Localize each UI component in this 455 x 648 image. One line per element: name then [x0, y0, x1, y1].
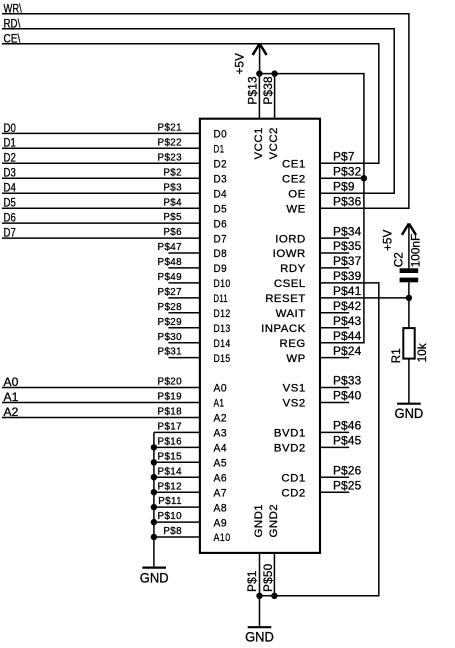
svg-text:10k: 10k: [415, 343, 429, 362]
pin P$35 IOWR: [320, 252, 349, 254]
junction bus P$12: [151, 489, 157, 495]
svg-text:WP: WP: [286, 353, 305, 365]
svg-text:P$48: P$48: [158, 257, 183, 268]
svg-text:D10: D10: [214, 278, 231, 290]
svg-text:D6: D6: [4, 211, 16, 225]
pin P$15 A5: [154, 461, 200, 463]
svg-text:D1: D1: [4, 136, 16, 150]
pin P$6 D7: [2, 237, 200, 239]
svg-text:P$38: P$38: [261, 76, 275, 105]
junction RC node: [406, 295, 412, 301]
svg-text:OE: OE: [288, 188, 305, 200]
wire CE2 branch: [320, 177, 364, 179]
svg-text:P$1: P$1: [245, 570, 259, 592]
svg-text:P$32: P$32: [333, 164, 361, 178]
junction P$50: [271, 593, 277, 599]
svg-text:P$23: P$23: [158, 152, 183, 163]
svg-text:P$36: P$36: [333, 194, 362, 208]
pin P$18 A2: [2, 417, 200, 419]
pin P$3 D4: [2, 192, 200, 194]
power +5V symbol (top): [259, 45, 261, 74]
svg-text:D14: D14: [214, 338, 231, 350]
junction P$13: [256, 70, 262, 76]
pin P$31 D15: [168, 357, 200, 359]
pin P$21 D0: [2, 132, 200, 134]
svg-text:+5V: +5V: [233, 53, 247, 74]
svg-text:P$27: P$27: [158, 287, 182, 298]
pin P$13 VCC1: [258, 74, 260, 119]
svg-text:P$8: P$8: [163, 526, 182, 537]
svg-text:A8: A8: [214, 502, 228, 514]
pin P$27 D11: [168, 297, 200, 299]
pin P$44 REG: [320, 342, 349, 344]
svg-text:GND: GND: [245, 629, 274, 645]
svg-text:CD1: CD1: [281, 472, 305, 484]
wire WR\ to WE pin: [2, 14, 409, 208]
svg-text:D12: D12: [214, 308, 231, 320]
pin P$42 WAIT: [320, 312, 349, 314]
svg-text:WAIT: WAIT: [276, 308, 306, 320]
wire R1 to GND: [408, 359, 410, 403]
svg-text:D2: D2: [4, 151, 16, 165]
svg-text:P$9: P$9: [333, 179, 355, 193]
pin P$10 A9: [154, 521, 200, 523]
pin P$16 A4: [154, 446, 200, 448]
svg-text:P$22: P$22: [158, 137, 182, 148]
pin P$33 VS1: [320, 387, 349, 389]
svg-text:IOWR: IOWR: [273, 248, 306, 260]
svg-text:A5: A5: [214, 458, 228, 470]
junction bus P$14: [151, 474, 157, 480]
svg-text:A2: A2: [4, 405, 19, 419]
svg-text:P$34: P$34: [333, 224, 362, 238]
svg-text:P$44: P$44: [333, 329, 362, 343]
junction bus P$11: [151, 504, 157, 510]
pin P$41 RESET: [320, 297, 349, 299]
pin P$30 D14: [168, 342, 200, 344]
svg-text:GND: GND: [395, 405, 424, 421]
pin P$45 BVD2: [320, 446, 349, 448]
ground GND (left bus): [142, 566, 166, 568]
svg-text:D5: D5: [214, 203, 228, 215]
wire A-bus to ground: [153, 432, 155, 566]
svg-text:D2: D2: [214, 159, 228, 171]
svg-text:D4: D4: [4, 181, 16, 195]
pin P$23 D2: [2, 162, 200, 164]
svg-text:BVD2: BVD2: [274, 443, 306, 455]
svg-text:P$6: P$6: [163, 227, 182, 238]
svg-text:P$15: P$15: [158, 451, 183, 462]
wire C2 to RC node: [408, 282, 410, 298]
svg-text:P$4: P$4: [163, 197, 182, 208]
junction bus P$8: [151, 534, 157, 540]
capacitor C2 plates: [400, 268, 419, 273]
svg-text:P$41: P$41: [333, 284, 361, 298]
pin P$37 RDY: [320, 267, 349, 269]
svg-text:D9: D9: [214, 263, 228, 275]
svg-text:P$42: P$42: [333, 299, 361, 313]
wire CSEL to ground rail: [260, 283, 379, 596]
pin P$29 D13: [168, 327, 200, 329]
pin P$32 CE2: [320, 177, 349, 179]
svg-text:GND2: GND2: [268, 504, 280, 538]
wire CE\ to CE1 pin: [2, 44, 379, 164]
pin P$48 D9: [168, 267, 200, 269]
svg-text:CD2: CD2: [281, 487, 305, 499]
wire RD\ to OE pin: [2, 29, 394, 193]
svg-text:P$25: P$25: [333, 478, 362, 492]
pin P$17 A3: [154, 431, 200, 433]
svg-text:P$19: P$19: [158, 392, 182, 403]
svg-text:P$5: P$5: [163, 212, 182, 223]
svg-text:P$16: P$16: [158, 437, 183, 448]
pin P$34 IORD: [320, 237, 349, 239]
svg-text:A1: A1: [4, 390, 19, 404]
junction bus P$16: [151, 444, 157, 450]
svg-text:P$10: P$10: [158, 511, 183, 522]
pin P$19 A1: [2, 402, 200, 404]
svg-text:P$28: P$28: [158, 302, 183, 313]
svg-text:D4: D4: [214, 188, 228, 200]
svg-text:P$18: P$18: [158, 407, 183, 418]
junction bus P$10: [151, 519, 157, 525]
svg-text:D13: D13: [214, 323, 231, 335]
svg-text:BVD1: BVD1: [274, 428, 306, 440]
svg-text:P$37: P$37: [333, 254, 361, 268]
pin P$1 GND1: [259, 553, 261, 596]
svg-text:P$17: P$17: [158, 422, 182, 433]
svg-text:P$26: P$26: [333, 463, 362, 477]
svg-text:P$50: P$50: [261, 563, 275, 592]
svg-text:D7: D7: [214, 233, 228, 245]
svg-text:D1: D1: [214, 144, 225, 156]
svg-text:A9: A9: [214, 517, 228, 529]
svg-text:D0: D0: [4, 121, 16, 135]
pin P$47 D8: [168, 252, 200, 254]
svg-text:P$35: P$35: [333, 239, 362, 253]
svg-text:P$3: P$3: [163, 182, 182, 193]
svg-text:IORD: IORD: [275, 233, 305, 245]
svg-text:VS2: VS2: [283, 398, 306, 410]
svg-text:A2: A2: [214, 413, 228, 425]
wire RC node to R1: [408, 298, 410, 328]
pin P$26 CD1: [320, 476, 349, 478]
svg-text:D3: D3: [214, 173, 228, 185]
svg-text:P$29: P$29: [158, 317, 182, 328]
svg-text:P$24: P$24: [333, 344, 362, 358]
wire RESET to RC node: [349, 297, 409, 299]
svg-text:P$13: P$13: [245, 76, 259, 105]
svg-text:A10: A10: [214, 532, 231, 544]
svg-text:D0: D0: [214, 129, 228, 141]
svg-text:P$21: P$21: [158, 123, 182, 134]
wire to bottom ground: [259, 596, 261, 626]
pin P$2 D3: [2, 177, 200, 179]
pin P$11 A8: [154, 506, 200, 508]
pin P$49 D10: [168, 282, 200, 284]
svg-text:P$39: P$39: [333, 269, 361, 283]
junction bus P$15: [151, 459, 157, 465]
svg-text:P$11: P$11: [158, 496, 182, 507]
pin P$38 VCC2: [274, 74, 276, 119]
svg-text:D3: D3: [4, 166, 16, 180]
resistor R1 body: [403, 328, 414, 359]
svg-text:P$20: P$20: [158, 377, 183, 388]
pin P$20 A0: [2, 387, 200, 389]
svg-text:A7: A7: [214, 487, 228, 499]
svg-text:P$2: P$2: [163, 167, 182, 178]
svg-text:P$7: P$7: [333, 150, 355, 164]
power +5V symbol (right): [408, 224, 410, 268]
svg-text:P$43: P$43: [333, 314, 362, 328]
svg-text:CE1: CE1: [282, 159, 306, 171]
pin P$39 CSEL: [320, 282, 349, 284]
svg-text:A3: A3: [214, 428, 228, 440]
svg-text:P$49: P$49: [158, 272, 182, 283]
pin P$50 GND2: [273, 553, 275, 596]
pin P$22 D1: [2, 147, 200, 149]
pin P$28 D12: [168, 312, 200, 314]
svg-text:REG: REG: [280, 338, 306, 350]
svg-text:D6: D6: [214, 218, 228, 230]
pin P$12 A7: [154, 491, 200, 493]
svg-text:RDY: RDY: [280, 263, 306, 275]
svg-text:D15: D15: [214, 353, 231, 365]
svg-text:WE: WE: [286, 203, 305, 215]
pin P$4 D5: [2, 207, 200, 209]
svg-text:INPACK: INPACK: [261, 323, 306, 335]
svg-text:P$14: P$14: [158, 466, 183, 477]
svg-text:P$33: P$33: [333, 374, 362, 388]
ground GND (right): [397, 403, 421, 405]
svg-text:R1: R1: [389, 348, 403, 363]
junction P$38: [271, 70, 277, 76]
svg-text:C2: C2: [392, 252, 406, 267]
svg-text:P$12: P$12: [158, 481, 182, 492]
svg-text:GND: GND: [140, 569, 169, 585]
svg-text:D7: D7: [4, 226, 16, 240]
pin P$46 BVD1: [320, 431, 349, 433]
svg-text:CSEL: CSEL: [274, 278, 306, 290]
wire +5V rail to REG pin: [259, 74, 364, 343]
pin P$25 CD2: [320, 491, 349, 493]
pin P$7 CE1: [320, 162, 349, 164]
pin P$24 WP: [320, 357, 349, 359]
pin P$14 A6: [154, 476, 200, 478]
svg-text:100nF: 100nF: [409, 234, 423, 267]
pin P$5 D6: [2, 222, 200, 224]
svg-text:GND1: GND1: [253, 504, 265, 538]
svg-text:P$47: P$47: [158, 242, 182, 253]
svg-text:D5: D5: [4, 196, 16, 210]
svg-text:VCC2: VCC2: [268, 127, 280, 159]
svg-text:P$31: P$31: [158, 347, 182, 358]
svg-text:VCC1: VCC1: [253, 127, 265, 159]
junction P$1: [256, 593, 262, 599]
pin P$40 VS2: [320, 402, 349, 404]
pin P$9 OE: [320, 192, 349, 194]
svg-text:A4: A4: [214, 443, 228, 455]
svg-text:VS1: VS1: [283, 383, 306, 395]
pin P$43 INPACK: [320, 327, 349, 329]
IC CF card connector body: [200, 119, 320, 553]
svg-text:P$45: P$45: [333, 434, 362, 448]
svg-text:A0: A0: [4, 375, 19, 389]
svg-text:D8: D8: [214, 248, 228, 260]
junction +5V/CE2: [361, 175, 367, 181]
svg-text:A1: A1: [214, 398, 225, 410]
svg-text:P$30: P$30: [158, 332, 183, 343]
svg-text:RESET: RESET: [265, 293, 305, 305]
pin P$8 A10: [154, 536, 200, 538]
svg-text:A6: A6: [214, 472, 228, 484]
svg-text:CE2: CE2: [282, 173, 306, 185]
svg-text:P$46: P$46: [333, 419, 362, 433]
svg-text:A0: A0: [214, 383, 228, 395]
svg-text:+5V: +5V: [381, 230, 395, 251]
ground GND (bottom): [248, 626, 272, 628]
pin P$36 WE: [320, 207, 349, 209]
svg-text:D11: D11: [214, 293, 229, 305]
svg-text:P$40: P$40: [333, 389, 362, 403]
